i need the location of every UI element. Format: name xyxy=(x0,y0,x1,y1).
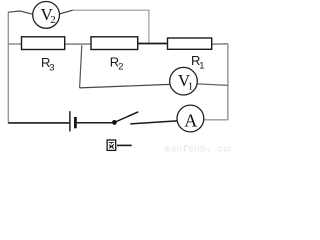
svg-text:2: 2 xyxy=(118,62,123,73)
svg-text:2: 2 xyxy=(50,14,56,26)
svg-text:A: A xyxy=(184,111,197,131)
svg-text:3: 3 xyxy=(49,63,54,74)
svg-text:manfen5. com: manfen5. com xyxy=(165,143,231,154)
svg-text:1: 1 xyxy=(199,61,204,72)
svg-text:1: 1 xyxy=(188,80,194,92)
